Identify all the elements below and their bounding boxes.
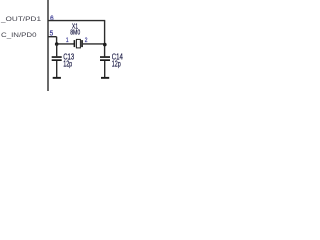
svg-text:6: 6 [50,15,54,22]
wire pin5 vertical drop [56,37,58,44]
wire crystal pin 2 to node B [83,43,105,45]
wire pin6 top horizontal [48,20,105,22]
svg-text:C_IN/PD0: C_IN/PD0 [1,32,37,39]
capacitor C13 top lead wire [56,44,58,56]
capacitor C13 top plate [52,56,62,58]
junction node B [103,43,107,47]
svg-text:12p: 12p [63,60,72,69]
capacitor C14 top plate [100,56,110,58]
svg-text:_OUT/PD1: _OUT/PD1 [0,16,41,23]
svg-text:8M0: 8M0 [70,28,80,37]
capacitor C14 bottom lead wire [104,61,106,77]
junction node A [55,42,59,46]
IC symbol border (left edge) [47,0,49,91]
wire node A to crystal pin 1 [57,43,74,45]
svg-text:12p: 12p [112,60,121,69]
capacitor C14 bottom plate [100,59,110,61]
ground symbol GND (right) [101,77,109,79]
wire right vertical [104,21,106,57]
crystal X1 right electrode plate [81,40,83,47]
svg-text:1: 1 [66,37,69,44]
capacitor C13 bottom lead wire [56,61,58,77]
ground symbol GND (left) [53,77,61,79]
svg-text:2: 2 [85,37,88,44]
wire pin5 horizontal [48,36,57,38]
crystal X1 quartz body box [76,39,80,48]
crystal X1 left electrode plate [74,40,76,47]
capacitor C13 bottom plate [52,59,62,61]
